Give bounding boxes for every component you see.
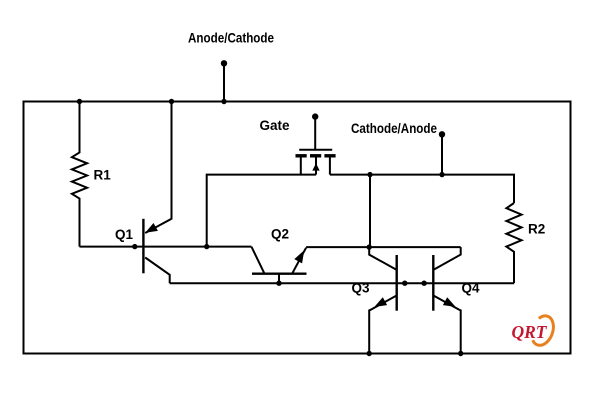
transistor Q4	[434, 247, 461, 269]
Q2 emitter arrow	[294, 250, 304, 263]
svg-text:Cathode/Anode: Cathode/Anode	[351, 121, 437, 136]
mosfet U1 gate plate	[299, 149, 332, 151]
Q1 emitter arrow	[145, 223, 158, 233]
svg-text:Anode/Cathode: Anode/Cathode	[188, 31, 274, 46]
svg-text:Q3: Q3	[352, 281, 371, 296]
Q4 emitter arrow	[443, 297, 456, 307]
terminal cathode/anode	[439, 131, 445, 137]
node top edge anode	[221, 99, 226, 104]
QRT logo swoosh	[533, 316, 554, 345]
wire Q1 collector	[145, 258, 170, 284]
wire mosfet source drop	[207, 175, 316, 247]
node Q1 base	[132, 244, 137, 249]
node top edge R1	[77, 99, 82, 104]
transistor Q3	[369, 247, 396, 269]
node collector rail	[367, 244, 372, 249]
wire Q1 emitter riser	[145, 102, 171, 234]
transistor Q1	[142, 219, 144, 273]
svg-text:R2: R2	[528, 222, 545, 237]
wire cathode terminal lead	[441, 134, 443, 174]
mosfet U1 gate lead	[314, 117, 316, 150]
node drain rail left	[367, 172, 372, 177]
svg-text:Q1: Q1	[115, 227, 134, 242]
svg-text:Q2: Q2	[271, 227, 289, 242]
mosfet bulk arrow	[312, 163, 319, 170]
junction and terminal dots	[77, 60, 464, 356]
wire anode terminal lead	[223, 63, 225, 101]
svg-text:Gate: Gate	[260, 118, 291, 133]
mosfet U1 drain pin	[329, 157, 331, 175]
node mosfet source junction	[204, 244, 209, 249]
wire mid drop to thyristor rail	[369, 175, 371, 248]
node drain rail cathode	[439, 172, 444, 177]
svg-text:Q4: Q4	[462, 281, 481, 296]
node Q2 base	[276, 281, 281, 286]
wire collector rail y247	[306, 246, 461, 248]
node Q3 base	[402, 281, 407, 286]
wire base rail y283	[170, 282, 514, 284]
resistor R1	[72, 102, 87, 247]
device outline box	[24, 102, 571, 354]
terminal gate	[312, 113, 318, 119]
transistor Q2	[252, 247, 265, 274]
node top edge Q1	[169, 99, 174, 104]
svg-text:R1: R1	[94, 168, 112, 183]
wire drain rail	[330, 175, 514, 203]
mosfet U1 bulk pin	[315, 157, 317, 175]
arrowheads	[145, 163, 455, 307]
mosfet U1 source pin	[300, 157, 302, 175]
node Q4 base	[421, 281, 426, 286]
resistor R2	[506, 203, 521, 283]
node bottom edge Q4	[458, 351, 463, 356]
wire Q1 base rail	[80, 246, 252, 248]
terminal anode/cathode	[221, 60, 227, 66]
svg-text:QRT: QRT	[512, 322, 548, 342]
mosfet U1 channel bars	[296, 154, 336, 157]
node bottom edge Q3	[367, 351, 372, 356]
Q3 emitter arrow	[374, 297, 387, 307]
